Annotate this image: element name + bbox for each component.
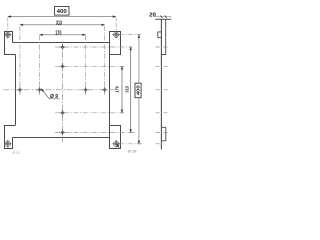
- extension line x=39.4 (170 left): [38, 35, 40, 95]
- svg-text:400: 400: [57, 9, 68, 15]
- leader line for Ø9: [41, 89, 60, 99]
- ear tab top-right: [110, 32, 121, 55]
- hole R4 (104.7,89.8): [102, 87, 108, 93]
- hole C3 (62.5,112.8): [60, 110, 66, 116]
- side view centerline ticks: [156, 47, 169, 144]
- side view right tab box: [161, 127, 165, 141]
- dimension 313 horizontal line: [20, 24, 105, 26]
- svg-text:20: 20: [149, 12, 156, 18]
- svg-text:400: 400: [136, 85, 142, 95]
- svg-text:313: 313: [56, 20, 62, 26]
- ear hole BR with diamond: [113, 140, 120, 147]
- vertical centerline through hole column: [62, 41, 64, 143]
- label 400 vertical box (right): [135, 83, 142, 98]
- ear hole BL with diamond: [4, 140, 11, 147]
- row centerline y=112.8: [55, 112, 123, 114]
- dimension 313 vertical line (right): [130, 47, 132, 132]
- dimension 400 vertical line (right): [138, 35, 140, 144]
- dimension 20 line (side view): [155, 16, 172, 18]
- svg-text:313: 313: [124, 86, 129, 93]
- hole C2 (62.5,66.3): [60, 63, 66, 69]
- dimension 400 horizontal line: [8, 16, 116, 18]
- plate outline (plan view, 350mm square): [13, 43, 110, 138]
- row centerline y=132.4: [55, 131, 132, 133]
- side view: main plate edge vertical: [160, 19, 162, 149]
- svg-text:Ø 18: Ø 18: [127, 149, 137, 154]
- hole C4 (62.5,132.4): [60, 129, 66, 135]
- extension line x=116.2 (400 right, through right ear holes): [115, 18, 117, 31]
- horizontal centerline through hole row: [3, 89, 117, 91]
- hole C1 (62.5,47): [60, 44, 66, 50]
- BR ear hole centerline y=143.8: [119, 143, 142, 145]
- hole R3 (85.6,89.8): [83, 87, 89, 93]
- side view left tab box: [158, 32, 162, 38]
- extension line x=85.6 (170 right): [85, 35, 87, 95]
- dimension 170 horizontal line: [39, 34, 85, 36]
- side view second wall vertical (upper): [161, 19, 165, 54]
- svg-text:Ø 9: Ø 9: [50, 94, 58, 100]
- svg-text:170: 170: [115, 86, 120, 93]
- ear tab bottom-right: [110, 126, 121, 149]
- dimension 170 vertical line (right): [121, 66, 123, 113]
- side view top cap: [155, 18, 171, 20]
- TR ear hole centerline y=34.7: [119, 34, 140, 36]
- row centerline y=66.3: [55, 65, 123, 67]
- row centerline y=47.0 to right dims: [55, 46, 132, 48]
- label 400 box (top): [55, 7, 70, 16]
- svg-text:170: 170: [55, 30, 61, 36]
- ear hole TR with diamond: [113, 31, 120, 38]
- extension line x=19.9 (313 left): [19, 26, 21, 95]
- ear tab top-left: [5, 32, 16, 55]
- hole R2 (39.4,89.8): [36, 87, 42, 93]
- extension line x=104.7 (313 right): [104, 26, 106, 95]
- hole R1 (19.9,89.8): [17, 87, 23, 93]
- ear hole TL with diamond: [4, 31, 11, 38]
- ear tab bottom-left: [5, 126, 16, 149]
- extension line x=7.8 (400 left, to TL ear hole): [7, 18, 9, 31]
- leader arrow at BR ear hole: [117, 144, 119, 149]
- svg-text:Ø 18: Ø 18: [12, 151, 19, 154]
